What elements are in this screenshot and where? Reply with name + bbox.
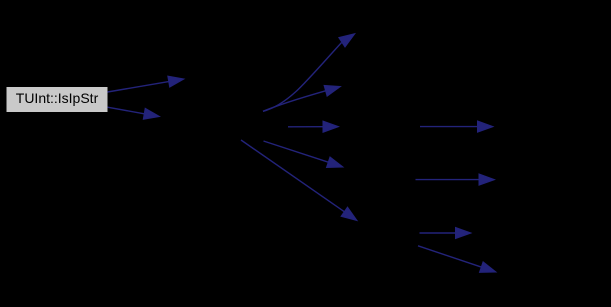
svg-text:TUInt::IsIpStr: TUInt::IsIpStr	[16, 90, 99, 106]
